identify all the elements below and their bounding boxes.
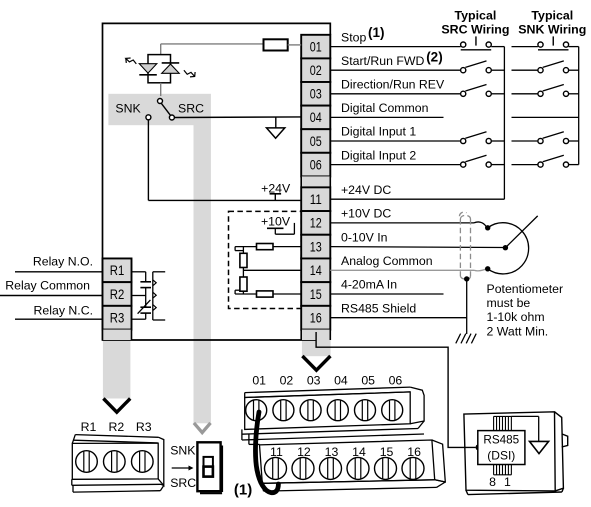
svg-text:RS485: RS485 bbox=[483, 433, 519, 447]
svg-text:Typical: Typical bbox=[455, 9, 497, 23]
svg-text:12: 12 bbox=[310, 216, 322, 232]
svg-text:03: 03 bbox=[310, 87, 322, 103]
svg-text:Start/Run FWD: Start/Run FWD bbox=[341, 54, 424, 68]
svg-text:Digital Input 2: Digital Input 2 bbox=[341, 148, 416, 162]
svg-text:SRC: SRC bbox=[178, 102, 204, 116]
svg-text:Relay N.C.: Relay N.C. bbox=[34, 304, 93, 318]
svg-text:4-20mA In: 4-20mA In bbox=[341, 278, 397, 292]
svg-text:02: 02 bbox=[280, 374, 294, 388]
svg-text:03: 03 bbox=[307, 374, 321, 388]
svg-text:SNK: SNK bbox=[115, 102, 141, 116]
svg-text:R2: R2 bbox=[110, 287, 125, 303]
svg-text:R1: R1 bbox=[81, 420, 97, 434]
svg-text:SRC: SRC bbox=[170, 476, 196, 490]
svg-text:(1): (1) bbox=[368, 25, 385, 40]
svg-text:8: 8 bbox=[489, 475, 496, 489]
svg-text:06: 06 bbox=[310, 157, 322, 173]
svg-text:Digital Common: Digital Common bbox=[341, 101, 429, 115]
svg-text:SNK: SNK bbox=[170, 443, 196, 457]
svg-text:04: 04 bbox=[334, 374, 348, 388]
svg-text:(DSI): (DSI) bbox=[487, 448, 515, 462]
svg-text:Analog Common: Analog Common bbox=[341, 254, 433, 268]
svg-text:(2): (2) bbox=[426, 50, 443, 65]
svg-text:Direction/Run REV: Direction/Run REV bbox=[341, 78, 445, 92]
svg-text:R3: R3 bbox=[136, 420, 152, 434]
svg-text:Potentiometer: Potentiometer bbox=[487, 282, 564, 296]
svg-text:0-10V In: 0-10V In bbox=[341, 230, 388, 244]
svg-text:11: 11 bbox=[310, 192, 322, 208]
svg-text:2 Watt Min.: 2 Watt Min. bbox=[487, 324, 549, 338]
svg-text:05: 05 bbox=[310, 134, 322, 150]
svg-text:R3: R3 bbox=[110, 311, 125, 327]
svg-text:Stop: Stop bbox=[341, 30, 366, 44]
svg-text:SRC Wiring: SRC Wiring bbox=[441, 23, 509, 37]
svg-text:02: 02 bbox=[310, 63, 322, 79]
svg-text:RS485 Shield: RS485 Shield bbox=[341, 301, 416, 315]
svg-text:R1: R1 bbox=[110, 263, 125, 279]
svg-text:06: 06 bbox=[389, 374, 403, 388]
svg-text:13: 13 bbox=[310, 239, 322, 255]
svg-text:Typical: Typical bbox=[531, 9, 573, 23]
svg-text:Relay Common: Relay Common bbox=[5, 279, 90, 293]
svg-text:05: 05 bbox=[361, 374, 375, 388]
svg-text:01: 01 bbox=[310, 39, 322, 55]
svg-text:01: 01 bbox=[252, 374, 266, 388]
svg-text:15: 15 bbox=[310, 287, 322, 303]
svg-text:Relay N.O.: Relay N.O. bbox=[33, 254, 93, 268]
svg-text:must be: must be bbox=[487, 296, 531, 310]
svg-text:Digital Input 1: Digital Input 1 bbox=[341, 125, 416, 139]
svg-text:14: 14 bbox=[310, 263, 322, 279]
svg-text:04: 04 bbox=[310, 110, 322, 126]
svg-text:1: 1 bbox=[504, 475, 511, 489]
svg-text:+10V: +10V bbox=[261, 215, 291, 229]
svg-text:R2: R2 bbox=[109, 420, 125, 434]
svg-text:1-10k ohm: 1-10k ohm bbox=[487, 310, 545, 324]
svg-text:+24V DC: +24V DC bbox=[341, 183, 391, 197]
svg-text:SNK Wiring: SNK Wiring bbox=[518, 23, 586, 37]
svg-text:(1): (1) bbox=[234, 482, 252, 499]
svg-text:+10V DC: +10V DC bbox=[341, 207, 391, 221]
svg-text:16: 16 bbox=[310, 311, 322, 327]
